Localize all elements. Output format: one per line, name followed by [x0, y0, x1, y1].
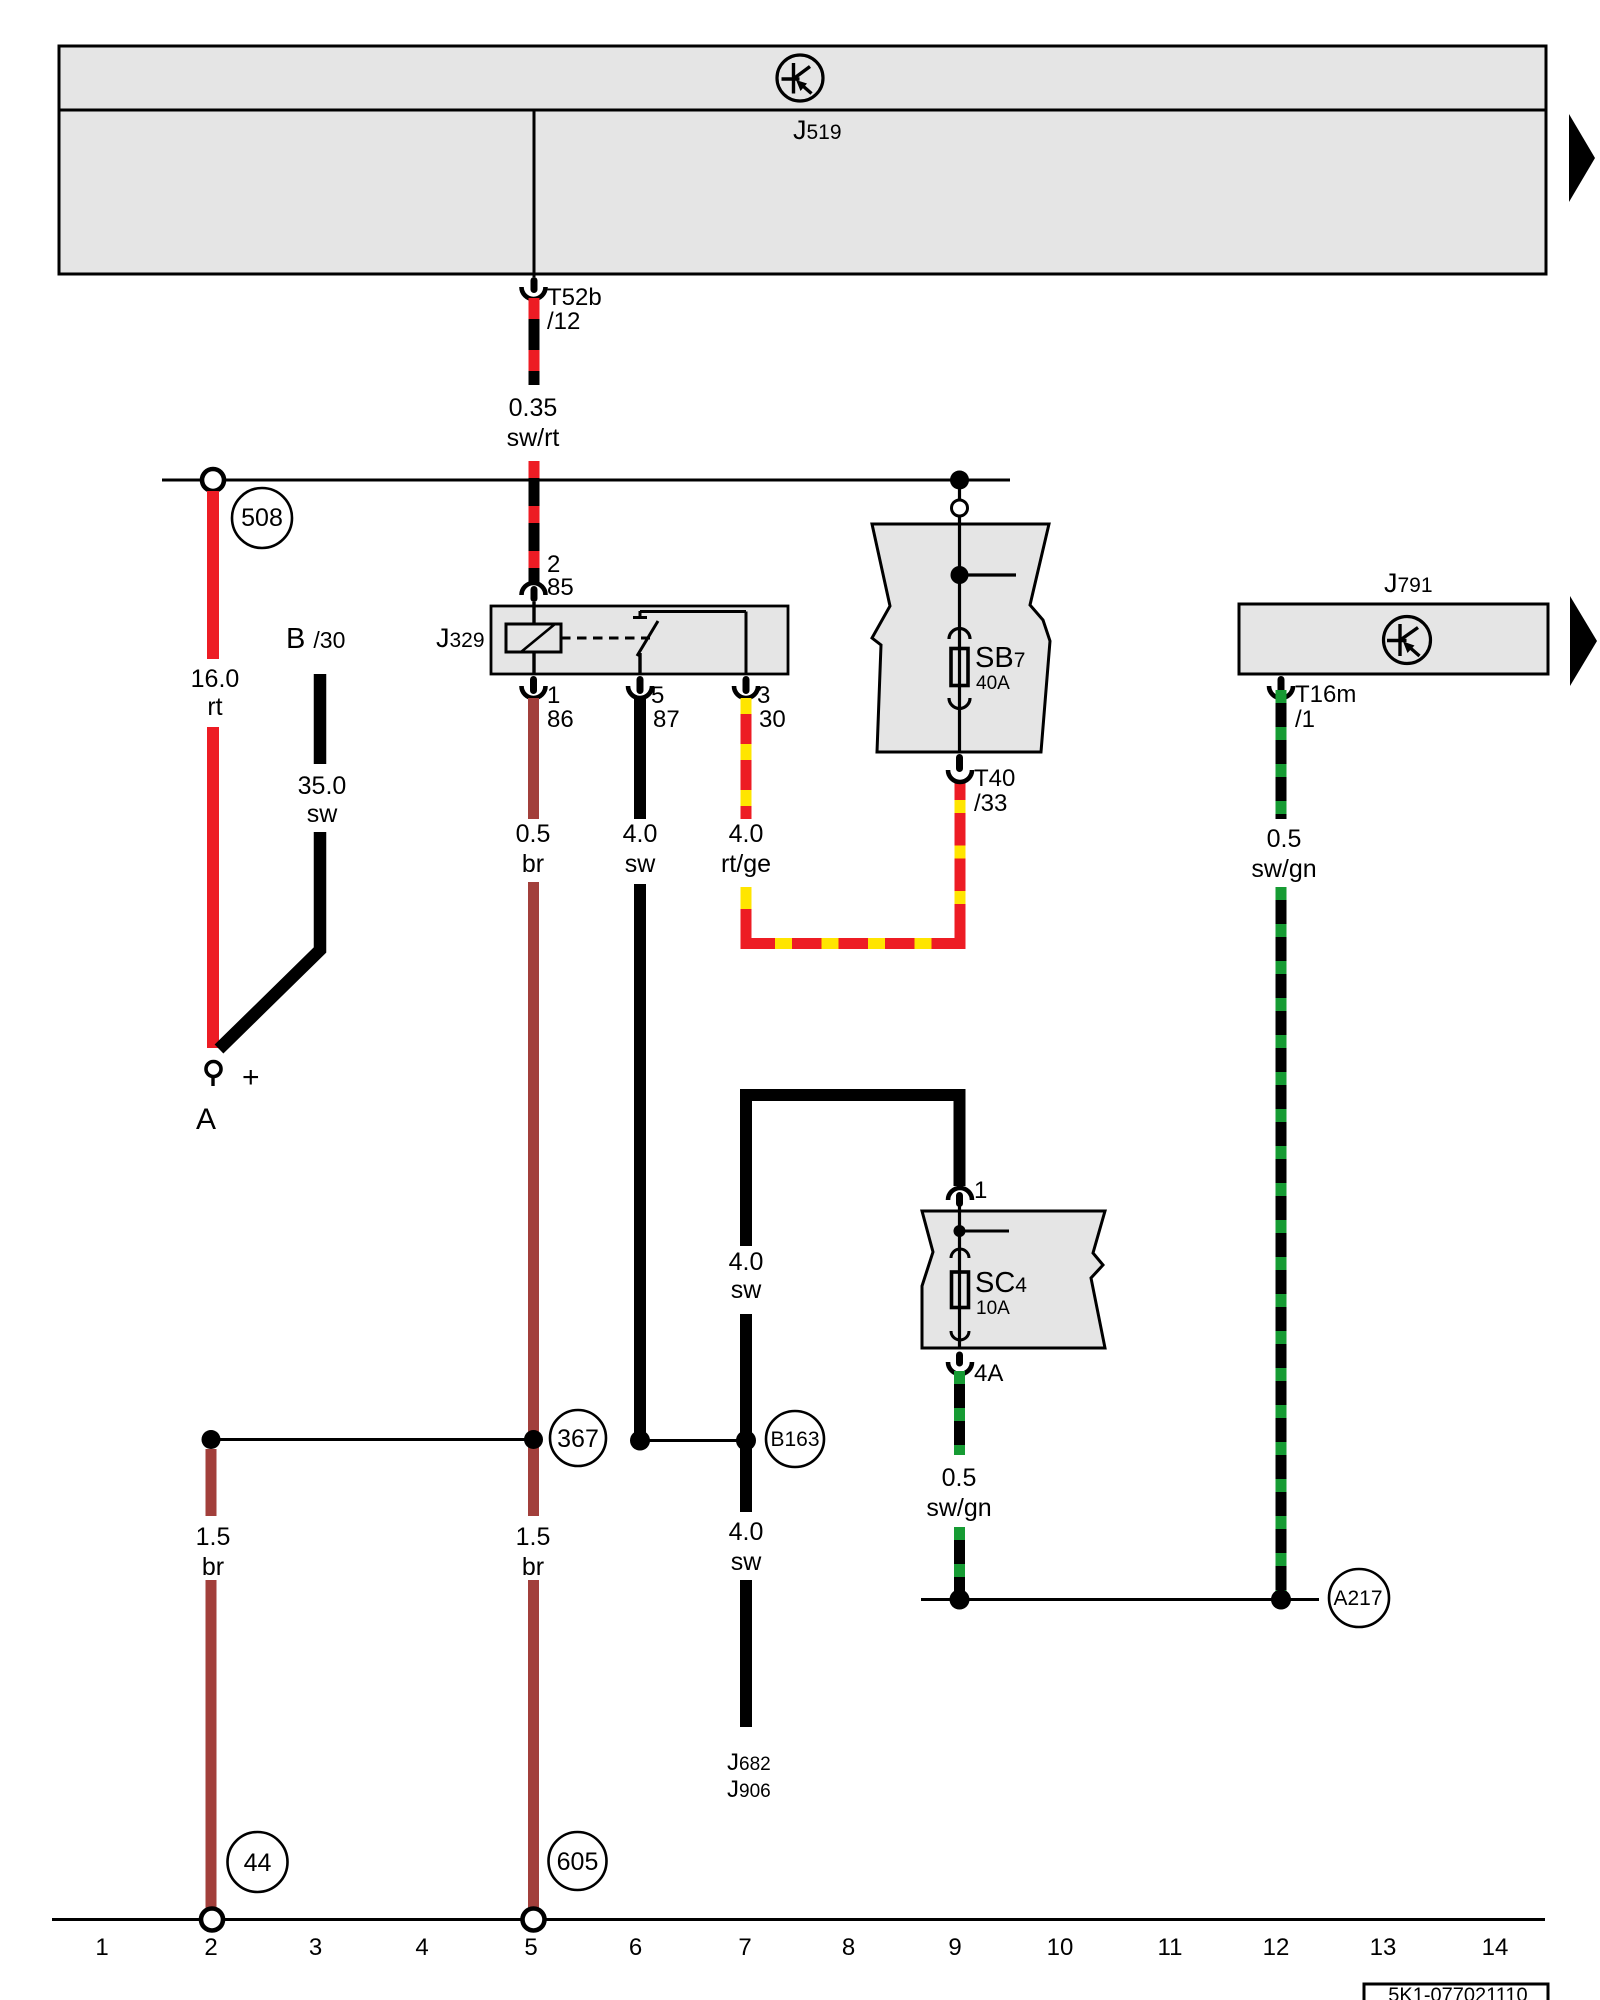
label 0.5 br	[516, 820, 551, 878]
fuse SB7 holder box	[872, 524, 1050, 752]
svg-text:0.5: 0.5	[1267, 825, 1302, 853]
junction dot end of 87-wire	[630, 1431, 650, 1451]
svg-text:0.5: 0.5	[942, 1464, 977, 1492]
svg-text:br: br	[202, 1553, 224, 1581]
wire 4.0 rt/ge from pin 30 upper	[741, 698, 752, 819]
wire 4.0 sw to junction B163	[740, 1314, 752, 1512]
svg-text:7: 7	[738, 1934, 751, 1961]
continuation arrow right of J791	[1570, 596, 1597, 686]
wire 0.35 sw/rt lower segment	[529, 461, 540, 583]
junction dot sw/gn from J791	[1271, 1590, 1291, 1610]
svg-text:16.0: 16.0	[191, 665, 240, 693]
svg-text:6: 6	[629, 1934, 642, 1961]
junction dot to SB7	[950, 471, 969, 490]
label 0.5 sw/gn	[926, 1464, 991, 1522]
svg-text:4A: 4A	[974, 1360, 1003, 1387]
svg-text:0.5: 0.5	[516, 820, 551, 848]
svg-text:5: 5	[524, 1934, 537, 1961]
svg-text:3: 3	[309, 1934, 322, 1961]
label 4.0 sw	[729, 1248, 764, 1304]
wire 1.5 br left lower	[206, 1580, 217, 1908]
svg-text:/1: /1	[1295, 706, 1315, 733]
svg-text:0.35: 0.35	[509, 394, 558, 422]
svg-text:85: 85	[547, 574, 574, 601]
wire 0.5 br long segment	[528, 882, 539, 1516]
wire 0.5 sw/gn below SC4 upper	[954, 1371, 965, 1455]
svg-text:10A: 10A	[976, 1298, 1010, 1319]
node circle B163	[766, 1411, 824, 1467]
svg-text:sw: sw	[307, 800, 339, 828]
SC4 internal junction dot	[954, 1225, 966, 1237]
connector T16m/1	[1269, 676, 1356, 733]
pin 2/85 connector on relay	[522, 551, 574, 602]
svg-text:4.0: 4.0	[729, 1248, 764, 1276]
node circle 508	[232, 488, 292, 548]
wire 4.0 sw to J682/J906	[740, 1580, 752, 1727]
svg-text:br: br	[522, 850, 544, 878]
svg-text:44: 44	[244, 1849, 272, 1877]
svg-text:B /30: B /30	[286, 623, 345, 655]
wire 1.5 br center lower	[528, 1580, 539, 1908]
SC4 internal stub	[960, 1230, 1010, 1233]
svg-text:T40: T40	[974, 765, 1015, 792]
control unit J791 box	[1239, 604, 1548, 674]
wire 0.35 sw/rt upper segment	[529, 298, 540, 385]
junction row A217	[921, 1598, 1319, 1601]
svg-text:87: 87	[653, 706, 680, 733]
K continuation symbol in J519	[777, 55, 823, 101]
svg-text:sw: sw	[731, 1548, 763, 1576]
svg-text:sw: sw	[731, 1276, 763, 1304]
wire 1.5 br left upper	[206, 1449, 217, 1516]
wire 0.5 sw/gn from J791 upper	[1276, 690, 1287, 819]
svg-text:4: 4	[415, 1934, 428, 1961]
fuse SC4 holder box	[922, 1211, 1105, 1348]
pin 5/87 connector	[628, 676, 680, 733]
junction dot sw/gn from SC4	[950, 1590, 970, 1610]
svg-text:8: 8	[842, 1934, 855, 1961]
label 4.0 sw	[623, 820, 658, 878]
svg-text:rt: rt	[207, 693, 222, 721]
svg-text:T16m: T16m	[1295, 681, 1356, 708]
svg-text:sw: sw	[625, 850, 657, 878]
svg-text:1.5: 1.5	[196, 1523, 231, 1551]
wire 35.0 sw upper	[314, 674, 327, 764]
svg-text:10: 10	[1047, 1934, 1074, 1961]
junction dot B163 on sw wire	[736, 1431, 756, 1451]
svg-text:1: 1	[974, 1177, 987, 1204]
coil-switch dashed link	[561, 637, 650, 640]
label 16.0 rt	[191, 665, 240, 721]
svg-text:+: +	[242, 1061, 260, 1094]
svg-text:sw/gn: sw/gn	[1251, 855, 1316, 883]
svg-text:sw/rt: sw/rt	[507, 424, 560, 452]
label 35.0 sw	[298, 772, 347, 828]
diagram number box	[1364, 1984, 1548, 2000]
terminal circle on node line	[202, 469, 224, 491]
svg-text:1.5: 1.5	[516, 1523, 551, 1551]
svg-text:1: 1	[95, 1934, 108, 1961]
ground terminal circle track 5	[523, 1909, 545, 1931]
junction dot on br wire	[524, 1430, 543, 1449]
svg-text:/33: /33	[974, 790, 1007, 817]
junction row B163	[640, 1439, 748, 1442]
svg-text:11: 11	[1158, 1934, 1183, 1961]
connector T40/33	[948, 754, 1015, 817]
battery terminal circle A	[196, 1061, 260, 1136]
svg-text:30: 30	[759, 706, 786, 733]
svg-text:rt/ge: rt/ge	[721, 850, 771, 878]
SC4 internal line	[958, 1205, 961, 1349]
label 4.0 sw lower	[729, 1518, 764, 1576]
wire 16.0 rt upper	[207, 491, 219, 659]
connector 4A under SC4	[948, 1352, 1003, 1388]
svg-text:4.0: 4.0	[623, 820, 658, 848]
label 1.5 br left	[196, 1523, 231, 1581]
wire inside J519 to pin T52b/12	[533, 110, 536, 277]
wire 35.0 sw lower with bend	[219, 832, 320, 1049]
svg-text:sw/gn: sw/gn	[926, 1494, 991, 1522]
control unit J519 box	[59, 46, 1546, 274]
svg-text:605: 605	[557, 1848, 599, 1876]
svg-text:35.0: 35.0	[298, 772, 347, 800]
label 0.35 sw/rt	[507, 394, 560, 452]
track numbers	[95, 1934, 1508, 1961]
svg-text:A: A	[196, 1103, 216, 1136]
internal terminal circle	[952, 500, 968, 516]
svg-text:A217: A217	[1333, 1587, 1382, 1610]
svg-text:J682: J682	[727, 1749, 771, 1776]
node circle 367	[550, 1410, 606, 1466]
wire 4.0 sw from pin 87 upper	[634, 698, 646, 819]
wire 4.0 sw from pin 87 lower	[634, 884, 646, 1434]
svg-text:1: 1	[547, 682, 560, 709]
label 4.0 rt/ge	[721, 820, 771, 878]
ground/track line bottom	[52, 1918, 1545, 1921]
svg-text:4.0: 4.0	[729, 1518, 764, 1546]
svg-text:T52b: T52b	[547, 284, 602, 311]
label 0.5 sw/gn	[1251, 825, 1316, 883]
connector pin 1 on SC4	[948, 1177, 987, 1207]
label J519	[793, 115, 842, 145]
ground terminal circle track 2	[201, 1909, 223, 1931]
svg-text:br: br	[522, 1553, 544, 1581]
horizontal node line 508 row	[162, 479, 1010, 482]
svg-text:12: 12	[1263, 1934, 1290, 1961]
pin 3/30 connector	[734, 676, 786, 733]
svg-text:367: 367	[557, 1425, 599, 1453]
svg-text:14: 14	[1482, 1934, 1509, 1961]
svg-text:9: 9	[948, 1934, 961, 1961]
label 1.5 br center	[516, 1523, 551, 1581]
K continuation symbol in J791	[1384, 617, 1431, 664]
svg-text:508: 508	[241, 504, 283, 532]
pin 1/86 connector	[522, 676, 574, 733]
svg-text:40A: 40A	[976, 673, 1010, 694]
wire 4.0 rt/ge elbow to SB7	[741, 780, 966, 944]
svg-text:B163: B163	[770, 1428, 819, 1451]
wire 0.5 sw/gn below SC4 lower	[954, 1527, 965, 1600]
node circle 44	[228, 1832, 288, 1892]
svg-text:2: 2	[204, 1934, 217, 1961]
continuation arrow top right	[1569, 114, 1595, 202]
svg-text:13: 13	[1370, 1934, 1397, 1961]
fuse SC4 symbol	[951, 1249, 969, 1340]
wire 4.0 sw feed to SC4	[746, 1095, 960, 1246]
junction row 367	[211, 1438, 534, 1441]
wire 0.5 br upper	[528, 698, 539, 819]
connector T52b/12	[522, 277, 602, 335]
svg-text:4.0: 4.0	[729, 820, 764, 848]
relay switch	[633, 611, 746, 675]
wire 16.0 rt lower	[207, 727, 219, 1048]
wire 0.5 sw/gn from J791 lower	[1276, 887, 1287, 1600]
svg-text:5: 5	[651, 682, 664, 709]
svg-text:J906: J906	[727, 1776, 771, 1803]
relay coil	[506, 602, 561, 675]
internal junction dot	[951, 566, 969, 584]
svg-text:/12: /12	[547, 308, 580, 335]
junction dot left	[202, 1430, 221, 1449]
fuse SB7 symbol	[949, 629, 970, 709]
svg-text:3: 3	[757, 682, 770, 709]
relay J329 box	[491, 606, 788, 674]
SB7 internal feed line	[958, 489, 961, 753]
svg-text:5K1-077021110: 5K1-077021110	[1388, 1985, 1527, 2000]
node circle 605	[549, 1832, 607, 1890]
svg-text:86: 86	[547, 706, 574, 733]
node circle A217	[1329, 1569, 1389, 1627]
internal stub line	[960, 573, 1017, 576]
